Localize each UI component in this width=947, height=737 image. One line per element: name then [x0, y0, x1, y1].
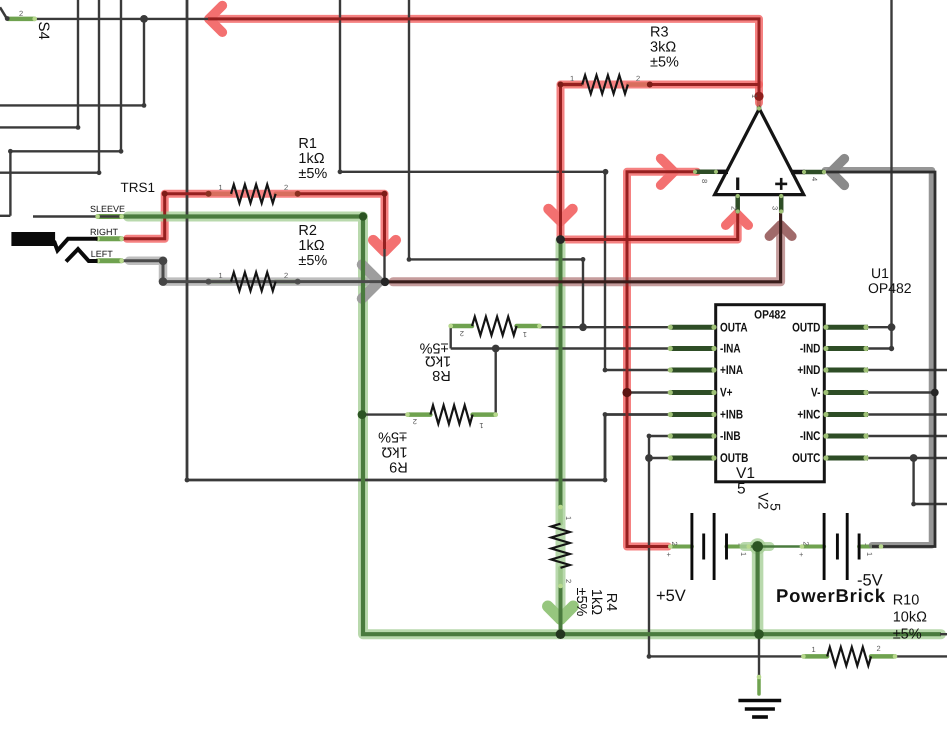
- svg-text:±5%: ±5%: [893, 627, 922, 643]
- svg-text:1kΩ: 1kΩ: [298, 151, 324, 167]
- svg-text:+5V: +5V: [656, 587, 686, 605]
- svg-text:8: 8: [700, 179, 709, 183]
- svg-text:5: 5: [737, 481, 746, 498]
- svg-text:2: 2: [284, 271, 288, 280]
- svg-text:1kΩ: 1kΩ: [298, 238, 324, 254]
- svg-text:2: 2: [564, 579, 573, 583]
- svg-text:1: 1: [739, 552, 748, 556]
- svg-text:4: 4: [810, 177, 819, 181]
- svg-text:2: 2: [670, 542, 679, 546]
- svg-text:+INB: +INB: [720, 408, 743, 422]
- svg-text:R4: R4: [603, 593, 619, 612]
- svg-text:2: 2: [413, 417, 417, 426]
- svg-text:+: +: [799, 550, 804, 559]
- svg-text:1: 1: [219, 271, 223, 280]
- svg-text:R3: R3: [650, 25, 669, 41]
- svg-text:±5%: ±5%: [573, 588, 589, 617]
- svg-text:1kΩ: 1kΩ: [588, 589, 604, 615]
- svg-text:V+: V+: [720, 386, 733, 400]
- svg-text:2: 2: [636, 74, 640, 83]
- svg-text:±5%: ±5%: [650, 55, 679, 71]
- svg-text:V1: V1: [736, 465, 755, 482]
- svg-text:R1: R1: [298, 136, 317, 152]
- svg-text:RIGHT: RIGHT: [90, 227, 119, 237]
- svg-text:+INA: +INA: [720, 363, 743, 377]
- svg-text:±5%: ±5%: [298, 253, 327, 269]
- svg-text:S4: S4: [35, 22, 52, 40]
- svg-text:10kΩ: 10kΩ: [893, 610, 927, 626]
- svg-text:R8: R8: [432, 367, 451, 383]
- svg-text:PowerBrick: PowerBrick: [776, 585, 886, 606]
- svg-text:1: 1: [523, 330, 527, 339]
- svg-text:1kΩ: 1kΩ: [381, 444, 407, 460]
- svg-text:3kΩ: 3kΩ: [650, 40, 676, 56]
- svg-text:OUTC: OUTC: [792, 451, 820, 465]
- svg-text:R9: R9: [389, 459, 408, 475]
- svg-text:±5%: ±5%: [378, 429, 407, 445]
- svg-text:2: 2: [877, 644, 881, 653]
- svg-text:1: 1: [219, 183, 223, 192]
- svg-text:TRS1: TRS1: [121, 180, 156, 195]
- svg-text:SLEEVE: SLEEVE: [90, 204, 125, 214]
- svg-text:+IND: +IND: [797, 363, 820, 377]
- svg-text:±5%: ±5%: [298, 166, 327, 182]
- svg-text:+INC: +INC: [797, 408, 820, 422]
- svg-text:2: 2: [730, 206, 739, 210]
- svg-text:LEFT: LEFT: [91, 249, 114, 259]
- svg-text:1: 1: [750, 94, 759, 98]
- svg-text:2: 2: [802, 542, 811, 546]
- svg-text:2: 2: [460, 329, 464, 338]
- svg-text:-INB: -INB: [720, 429, 741, 443]
- svg-text:U1: U1: [871, 265, 889, 281]
- svg-text:+: +: [667, 550, 672, 559]
- svg-text:OUTA: OUTA: [720, 320, 748, 334]
- svg-text:1: 1: [479, 421, 483, 430]
- svg-text:OUTB: OUTB: [720, 451, 748, 465]
- svg-text:1: 1: [564, 516, 573, 520]
- svg-text:-INA: -INA: [720, 342, 741, 356]
- svg-text:OP482: OP482: [868, 280, 912, 296]
- svg-text:2: 2: [284, 183, 288, 192]
- svg-text:OP482: OP482: [754, 308, 786, 322]
- svg-text:-INC: -INC: [800, 429, 821, 443]
- svg-text:-IND: -IND: [800, 342, 821, 356]
- svg-text:R10: R10: [893, 593, 920, 609]
- svg-text:1: 1: [865, 552, 874, 556]
- svg-text:OUTD: OUTD: [792, 320, 820, 334]
- svg-text:5: 5: [767, 503, 783, 511]
- svg-text:1: 1: [812, 645, 816, 654]
- svg-text:3: 3: [771, 206, 780, 210]
- svg-text:R2: R2: [298, 223, 317, 239]
- svg-text:1: 1: [570, 74, 574, 83]
- svg-text:1kΩ: 1kΩ: [425, 353, 451, 369]
- svg-text:V-: V-: [811, 386, 820, 400]
- svg-text:2: 2: [19, 9, 23, 18]
